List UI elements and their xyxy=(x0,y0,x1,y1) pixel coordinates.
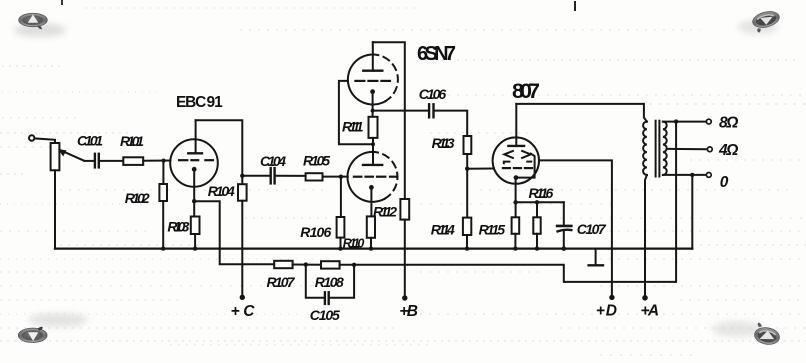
svg-text:807: 807 xyxy=(512,79,540,103)
wire cathode branch to feedback line xyxy=(194,201,274,264)
terminal +C xyxy=(240,295,245,300)
wire C104 coupling xyxy=(242,175,269,177)
node R116 ground xyxy=(535,246,539,250)
svg-text:R116: R116 xyxy=(529,185,554,201)
svg-text:R104: R104 xyxy=(208,183,235,199)
pin shadow top-left xyxy=(14,23,66,37)
wire secondary middle tap to 4 ohm xyxy=(667,148,707,150)
node R103 ground xyxy=(193,246,197,250)
node C107 ground xyxy=(562,246,567,251)
807 screen grid dashes xyxy=(503,167,510,169)
svg-text:91: 91 xyxy=(207,94,224,111)
wire feedback line to output transformer tap xyxy=(354,122,676,282)
registration tick top-left xyxy=(61,0,63,5)
potentiometer wiper arrow xyxy=(61,150,85,161)
node feedback tap xyxy=(674,119,678,123)
pin bottom-right xyxy=(753,322,781,346)
svg-text:R103: R103 xyxy=(167,219,189,235)
terminal +D xyxy=(609,295,614,300)
svg-text:R107: R107 xyxy=(267,274,296,290)
wire input to potentiometer top xyxy=(35,138,56,143)
tube 807 envelope xyxy=(493,137,539,183)
wire R103 to ground rail xyxy=(194,234,196,249)
resistor R101 xyxy=(123,157,143,165)
wire lower cathode to R110 xyxy=(370,187,372,216)
node R106 ground xyxy=(338,246,342,250)
6SN7 lower cathode xyxy=(369,185,374,190)
wire EBC91 plate to R104 top xyxy=(196,120,243,184)
6SN7 lower grid dashes xyxy=(354,176,362,178)
svg-text:EBC: EBC xyxy=(176,94,206,111)
wire R112 to +B terminal xyxy=(404,220,406,298)
svg-text:R110: R110 xyxy=(343,237,365,251)
svg-text:R108: R108 xyxy=(315,274,344,290)
pin shadow bottom-right xyxy=(712,321,764,337)
tube EBC91 envelope xyxy=(170,139,218,187)
resistor R113 xyxy=(464,136,472,154)
node R108 left xyxy=(304,262,308,266)
terminal 0 xyxy=(706,173,711,178)
pin top-right xyxy=(751,9,782,34)
wire node to R116 xyxy=(536,202,538,217)
wire primary to +A terminal xyxy=(645,175,647,298)
wire R116 to ground rail xyxy=(536,234,538,249)
wire C106 to R113 xyxy=(435,111,468,136)
wire R115 to ground rail xyxy=(514,234,516,249)
wire to C106 xyxy=(373,110,429,112)
wire C101 to R101 xyxy=(100,160,124,162)
6SN7 upper cathode xyxy=(370,89,375,94)
wire R106 to ground rail xyxy=(340,238,342,249)
svg-text:R106: R106 xyxy=(300,224,331,240)
wire R102 to ground rail xyxy=(162,201,164,249)
node cathode / C106 tap xyxy=(371,109,375,113)
svg-text:R115: R115 xyxy=(479,222,506,238)
wire R110 to ground rail xyxy=(370,238,372,249)
resistor R110 xyxy=(367,216,375,237)
EBC91 cathode xyxy=(192,167,197,172)
svg-text:R111: R111 xyxy=(342,118,364,134)
node cathode branch xyxy=(192,199,196,203)
svg-text:6SN7: 6SN7 xyxy=(417,43,456,65)
pin top-left xyxy=(19,13,48,29)
resistor R103 xyxy=(191,217,200,235)
node cathode branch xyxy=(513,200,517,204)
wire secondary ground tap to rail xyxy=(691,175,693,249)
wire to C107 xyxy=(563,202,565,225)
wire upper plate to R112 and +B xyxy=(373,42,405,199)
svg-text:+A: +A xyxy=(641,303,660,320)
pin shadow top-right xyxy=(738,20,778,34)
node R102 tap xyxy=(162,159,166,163)
node R106 tap xyxy=(339,175,343,179)
wire secondary bottom tap to 0 xyxy=(663,174,706,176)
capacitor C106 xyxy=(428,104,430,117)
capacitor C105 xyxy=(324,292,326,304)
resistor R114 xyxy=(463,218,471,235)
terminal 8 ohm xyxy=(706,119,711,124)
wire EBC91 cathode down xyxy=(193,169,195,216)
wire potentiometer bottom to ground rail xyxy=(54,170,56,248)
resistor R112 xyxy=(400,199,409,220)
807 cathode xyxy=(514,175,519,180)
wire node to R102 xyxy=(162,161,164,184)
svg-text:R114: R114 xyxy=(431,222,455,238)
807 beam-to-cathode strap xyxy=(519,154,535,178)
6SN7 upper grid dashes xyxy=(355,80,364,82)
ground rail xyxy=(55,247,692,249)
node R108 right xyxy=(352,263,356,267)
wire C107 to ground rail xyxy=(563,231,565,249)
capacitor C104 xyxy=(270,168,272,183)
node 807 grid tap xyxy=(465,167,469,171)
svg-text:C: C xyxy=(243,303,255,320)
wire R107 to R108 node xyxy=(293,264,306,266)
wire R113 to R114 xyxy=(466,154,468,218)
wire R114 to ground rail xyxy=(466,235,468,249)
svg-text:R102: R102 xyxy=(125,190,150,206)
wire upper grid to lower plate node xyxy=(339,81,373,144)
wire wiper to C101 xyxy=(85,160,95,162)
807 plate xyxy=(508,145,524,147)
wire C104 to R105 xyxy=(276,175,306,177)
wire secondary top tap to 8 ohm xyxy=(663,121,706,123)
resistor R108 xyxy=(321,261,340,268)
potentiometer P1 body xyxy=(51,143,60,170)
resistor R111 xyxy=(369,117,378,138)
node R102 ground xyxy=(161,246,165,250)
807 beam plate right xyxy=(522,151,531,158)
wire 807 cathode down xyxy=(515,178,517,218)
svg-text:4Ω: 4Ω xyxy=(718,142,738,159)
terminal +A xyxy=(642,295,648,301)
capacitor C107 xyxy=(557,225,571,228)
input terminal xyxy=(29,135,34,140)
wire upper cathode to C106 node xyxy=(372,92,374,117)
EBC91 plate xyxy=(188,152,202,154)
chassis ground symbol xyxy=(595,249,597,265)
node R115 ground xyxy=(513,246,517,250)
807 beam dash left xyxy=(504,162,510,164)
wire R105 to 6SN7 grid xyxy=(323,176,348,178)
transformer T1 core xyxy=(655,121,657,177)
svg-text:R112: R112 xyxy=(373,204,397,220)
pin shadow bottom-left xyxy=(28,313,88,327)
svg-text:C106: C106 xyxy=(419,86,447,102)
wire node to R106 xyxy=(340,177,342,217)
wire R104 to +C terminal xyxy=(241,201,243,298)
terminal 4 ohm xyxy=(707,147,712,152)
svg-text:8Ω: 8Ω xyxy=(719,115,738,132)
svg-text:R113: R113 xyxy=(432,135,455,151)
EBC91 grid dashes xyxy=(179,159,187,161)
wire R101 to EBC91 grid xyxy=(143,160,170,162)
wire 807 plate to transformer primary xyxy=(516,104,647,122)
tube 6SN7 lower triode envelope xyxy=(347,152,384,202)
resistor R105 xyxy=(306,173,323,180)
wire node to 807 grid xyxy=(467,168,494,170)
wire cathode branch right xyxy=(516,201,564,203)
wire R108 to right node xyxy=(340,264,355,266)
wire 807 screen to +D terminal xyxy=(539,160,612,297)
registration tick top-center xyxy=(574,1,576,11)
pin bottom-left xyxy=(18,327,47,343)
node R116 tap xyxy=(535,200,539,204)
svg-text:C107: C107 xyxy=(577,221,607,237)
wire C105 left leg xyxy=(306,265,324,298)
resistor R107 xyxy=(274,261,292,268)
svg-text:+B: +B xyxy=(399,303,418,320)
wire R111 to lower plate xyxy=(372,138,374,165)
svg-text:C104: C104 xyxy=(260,153,286,169)
transformer T1 primary winding xyxy=(643,122,647,175)
node secondary ground tap xyxy=(690,173,694,177)
svg-text:+: + xyxy=(231,303,240,320)
resistor R102 xyxy=(159,184,167,201)
svg-text:C105: C105 xyxy=(310,307,340,323)
wire node to R108 xyxy=(306,264,321,266)
resistor R115 xyxy=(512,217,520,234)
svg-text:R101: R101 xyxy=(120,133,144,149)
resistor R104 xyxy=(238,184,247,201)
svg-text:+D: +D xyxy=(596,303,617,320)
node R114 ground xyxy=(465,246,469,250)
6SN7 lower plate xyxy=(363,164,382,166)
terminal +B xyxy=(402,295,407,300)
resistor R116 xyxy=(533,217,540,234)
node plate / C104 tap xyxy=(240,174,244,178)
6SN7 upper plate xyxy=(363,69,382,71)
node grid-plate junction xyxy=(371,142,375,146)
node R110 ground xyxy=(369,246,373,250)
tube 6SN7 upper triode envelope xyxy=(348,55,385,105)
transformer T1 secondary winding xyxy=(663,122,667,175)
resistor R106 xyxy=(337,217,345,238)
807 beam dash right xyxy=(527,161,531,163)
svg-text:0: 0 xyxy=(720,174,729,191)
wire C105 right leg xyxy=(330,265,354,298)
807 beam plate left xyxy=(504,151,513,158)
svg-text:R105: R105 xyxy=(303,153,330,169)
capacitor C101 xyxy=(94,154,96,168)
svg-text:C101: C101 xyxy=(77,133,103,149)
